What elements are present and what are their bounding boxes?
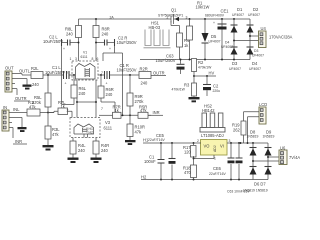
svg-text:UF4007: UF4007 — [221, 45, 233, 49]
svg-text:V1: V1 — [83, 51, 87, 55]
svg-text:STP5NK50ZFP1: STP5NK50ZFP1 — [158, 13, 183, 17]
svg-text:2A: 2A — [110, 15, 115, 19]
svg-text:7V/4A: 7V/4A — [289, 155, 300, 160]
wire pin3 stub — [9, 122, 12, 124]
connector U6 transformer — [279, 146, 300, 165]
wire B+ top rail — [79, 18, 251, 25]
wire to ground — [12, 79, 27, 85]
svg-text:UF4007: UF4007 — [248, 13, 260, 17]
ground — [23, 85, 32, 90]
diode D8 — [247, 130, 259, 180]
svg-text:3: 3 — [75, 57, 77, 61]
diode D9 — [263, 130, 275, 180]
svg-text:LT1085-ADJ: LT1085-ADJ — [201, 133, 224, 138]
regulator U1 LT1085-ADJ — [197, 133, 231, 161]
svg-text:R2: R2 — [198, 60, 204, 65]
resistor R2R — [139, 67, 152, 86]
svg-text:100nF: 100nF — [144, 159, 156, 164]
wire INL — [9, 112, 27, 114]
transistor Q1 — [158, 8, 188, 34]
svg-text:240: 240 — [106, 92, 114, 97]
svg-text:240: 240 — [32, 82, 40, 87]
resistor R1 — [187, 1, 210, 60]
wire bridge taps — [234, 36, 260, 41]
node OUTR flag left — [14, 96, 30, 101]
resistor R5R — [138, 105, 151, 119]
node H2 flag — [141, 174, 147, 179]
svg-text:CE6: CE6 — [213, 166, 222, 171]
resistor R17 — [183, 143, 196, 159]
wire bridge mid taps — [253, 157, 279, 161]
wire ADJ — [194, 155, 215, 159]
diode D2 — [247, 7, 261, 60]
svg-text:HB142: HB142 — [202, 108, 215, 113]
svg-text:270k: 270k — [135, 99, 145, 104]
svg-text:R3: R3 — [184, 83, 190, 88]
svg-text:D2: D2 — [253, 7, 259, 12]
svg-text:270k: 270k — [32, 100, 42, 105]
svg-text:6111: 6111 — [104, 126, 113, 131]
node HV flag — [194, 71, 216, 77]
capacitor CE6 pair — [209, 143, 243, 180]
svg-text:+: + — [65, 82, 67, 86]
svg-text:120: 120 — [184, 150, 192, 155]
capacitor C2 — [203, 75, 220, 96]
svg-text:10uF/250V: 10uF/250V — [45, 70, 65, 75]
svg-text:1: 1 — [70, 57, 72, 61]
svg-text:680UF/400V: 680UF/400V — [205, 14, 225, 18]
svg-text:R2R: R2R — [140, 67, 148, 72]
svg-text:INL: INL — [13, 107, 20, 112]
diode D5 — [202, 19, 221, 60]
node OUTR flag right — [152, 70, 166, 75]
svg-text:ADJ: ADJ — [213, 145, 217, 152]
svg-text:Q1: Q1 — [171, 8, 177, 13]
wire ground return rail — [140, 59, 250, 61]
wire OUTR stub — [12, 89, 17, 95]
capacitor C1L — [45, 65, 74, 86]
tube V1 6111 — [66, 51, 103, 81]
svg-text:8: 8 — [92, 57, 94, 61]
svg-text:2: 2 — [197, 139, 199, 143]
resistor R4 — [177, 33, 190, 60]
svg-text:OUTR: OUTR — [15, 96, 27, 101]
svg-text:240: 240 — [79, 91, 87, 96]
svg-text:LCD: LCD — [259, 102, 267, 107]
ground — [91, 158, 102, 164]
resistor R9R — [127, 75, 144, 115]
resistor R4L — [70, 138, 86, 158]
svg-text:D4: D4 — [252, 61, 258, 66]
svg-text:OUTR: OUTR — [153, 70, 165, 75]
heatsink HS1 — [144, 21, 171, 48]
svg-text:240: 240 — [66, 32, 74, 37]
diode D7 — [265, 167, 272, 175]
svg-text:D1: D1 — [237, 7, 243, 12]
wire vertical bus left — [61, 46, 63, 105]
svg-text:10uF/250V: 10uF/250V — [117, 68, 137, 73]
svg-text:3: 3 — [229, 139, 231, 143]
ground — [189, 97, 200, 102]
svg-text:240: 240 — [141, 81, 149, 86]
resistor R18 — [183, 159, 197, 180]
resistor R1L — [27, 100, 54, 116]
svg-text:OUTL: OUTL — [19, 69, 31, 74]
svg-text:10uF/250V: 10uF/250V — [117, 40, 137, 45]
svg-text:INR: INR — [153, 110, 160, 115]
svg-text:UF4007: UF4007 — [209, 40, 221, 44]
svg-text:262: 262 — [233, 128, 241, 133]
connector OUT jack — [5, 66, 14, 93]
svg-text:IN: IN — [3, 105, 7, 110]
svg-text:240: 240 — [101, 148, 109, 153]
resistor R6R — [98, 74, 115, 112]
capacitor CE5 — [148, 133, 176, 179]
svg-text:INR: INR — [15, 139, 22, 144]
resistor R4R — [93, 138, 109, 158]
wire bottom rail — [141, 179, 268, 181]
svg-text:220u: 220u — [213, 89, 221, 93]
heatsink HS2 — [200, 104, 225, 133]
svg-text:10k/1W: 10k/1W — [196, 5, 210, 10]
svg-text:C2: C2 — [213, 84, 219, 89]
ground — [68, 158, 79, 164]
svg-text:UF4007: UF4007 — [249, 67, 261, 71]
svg-text:47k: 47k — [140, 108, 148, 113]
svg-text:D3: D3 — [232, 61, 238, 66]
svg-text:VI: VI — [220, 144, 224, 149]
node INR flag right — [148, 110, 163, 115]
wire H1 rail — [143, 142, 201, 144]
svg-text:H2: H2 — [141, 174, 147, 179]
svg-text:+: + — [109, 47, 111, 51]
resistor R7L grid stopper — [48, 100, 72, 117]
resistor R5L — [32, 75, 51, 113]
node INR flag left — [13, 139, 27, 144]
resistor R8L — [65, 26, 82, 62]
svg-text:3: 3 — [186, 16, 188, 20]
connector IN jack — [2, 105, 9, 131]
resistor R2L — [31, 66, 63, 87]
resistor R2 — [192, 59, 213, 84]
resistor R7R grid — [99, 104, 138, 118]
tube V3 6111 — [67, 107, 113, 138]
diode D1 — [231, 7, 245, 60]
resistor R3 — [172, 83, 197, 98]
svg-text:1N5819 1N5819: 1N5819 1N5819 — [243, 189, 268, 193]
svg-text:47k: 47k — [52, 132, 60, 137]
svg-text:22uF/T16V: 22uF/T16V — [209, 172, 227, 176]
ground — [43, 145, 54, 151]
svg-text:47k: 47k — [29, 105, 37, 110]
connector LCD — [244, 102, 268, 144]
svg-text:H2: H2 — [89, 130, 93, 134]
diode D3 — [221, 41, 241, 72]
svg-text:UF4007: UF4007 — [252, 53, 264, 57]
svg-text:47k: 47k — [135, 130, 143, 135]
svg-text:10uF/250V: 10uF/250V — [43, 39, 63, 44]
wire to ground — [9, 118, 22, 128]
capacitor C2R — [95, 36, 137, 52]
svg-text:U4: U4 — [261, 26, 267, 31]
svg-text:170VAC/28A: 170VAC/28A — [269, 35, 293, 40]
svg-text:2: 2 — [167, 16, 169, 20]
svg-text:HB-03: HB-03 — [149, 25, 161, 30]
wire INR stub — [9, 128, 13, 139]
svg-text:1N5819: 1N5819 — [247, 135, 259, 139]
resistor R10R — [127, 115, 145, 140]
capacitor C63 — [156, 54, 185, 75]
svg-text:6111: 6111 — [81, 55, 88, 59]
ground — [125, 140, 136, 145]
svg-text:UF4007: UF4007 — [229, 67, 241, 71]
resistor R6L — [62, 74, 87, 104]
svg-text:VO: VO — [204, 144, 210, 149]
resistor R3L — [45, 113, 60, 146]
svg-text:240: 240 — [102, 32, 110, 37]
ground — [18, 127, 27, 132]
wire vertical bus right — [103, 46, 123, 115]
svg-text:10uF/250V: 10uF/250V — [156, 58, 176, 63]
svg-text:V3: V3 — [105, 120, 111, 125]
svg-text:+: + — [213, 21, 215, 25]
svg-text:OUT: OUT — [5, 66, 14, 71]
wire OUTL — [12, 74, 31, 75]
svg-text:D5: D5 — [211, 34, 217, 39]
diode D4 — [247, 47, 265, 71]
connector U4 mains — [259, 26, 293, 47]
capacitor C2L — [43, 35, 79, 52]
diode D6 — [250, 167, 257, 175]
wire V1 cathode drops — [77, 80, 96, 118]
resistor R8R — [93, 26, 110, 62]
capacitor C1 100nF — [144, 143, 165, 180]
capacitor C1R — [98, 63, 139, 85]
wire VI rail — [227, 142, 268, 144]
svg-text:2: 2 — [67, 109, 69, 113]
svg-text:470: 470 — [184, 170, 192, 175]
svg-text:HV: HV — [209, 71, 215, 76]
svg-text:7: 7 — [101, 107, 103, 111]
node H1 flag — [143, 138, 149, 143]
resistor R19 LED series — [232, 112, 246, 143]
svg-text:+: + — [106, 82, 108, 86]
wire pin3 stub — [12, 83, 15, 85]
svg-text:470k/1W: 470k/1W — [172, 88, 186, 92]
svg-text:D6 D7: D6 D7 — [254, 182, 266, 187]
svg-text:470k/1W: 470k/1W — [198, 66, 212, 70]
svg-text:R2L: R2L — [31, 66, 39, 71]
svg-text:6: 6 — [97, 57, 99, 61]
capacitor CE1 — [205, 9, 229, 60]
svg-text:+: + — [63, 47, 65, 51]
svg-text:240: 240 — [78, 148, 86, 153]
svg-text:1N5819: 1N5819 — [263, 135, 275, 139]
svg-text:UF4007: UF4007 — [232, 13, 244, 17]
svg-text:22uF/T16V: 22uF/T16V — [148, 138, 166, 142]
